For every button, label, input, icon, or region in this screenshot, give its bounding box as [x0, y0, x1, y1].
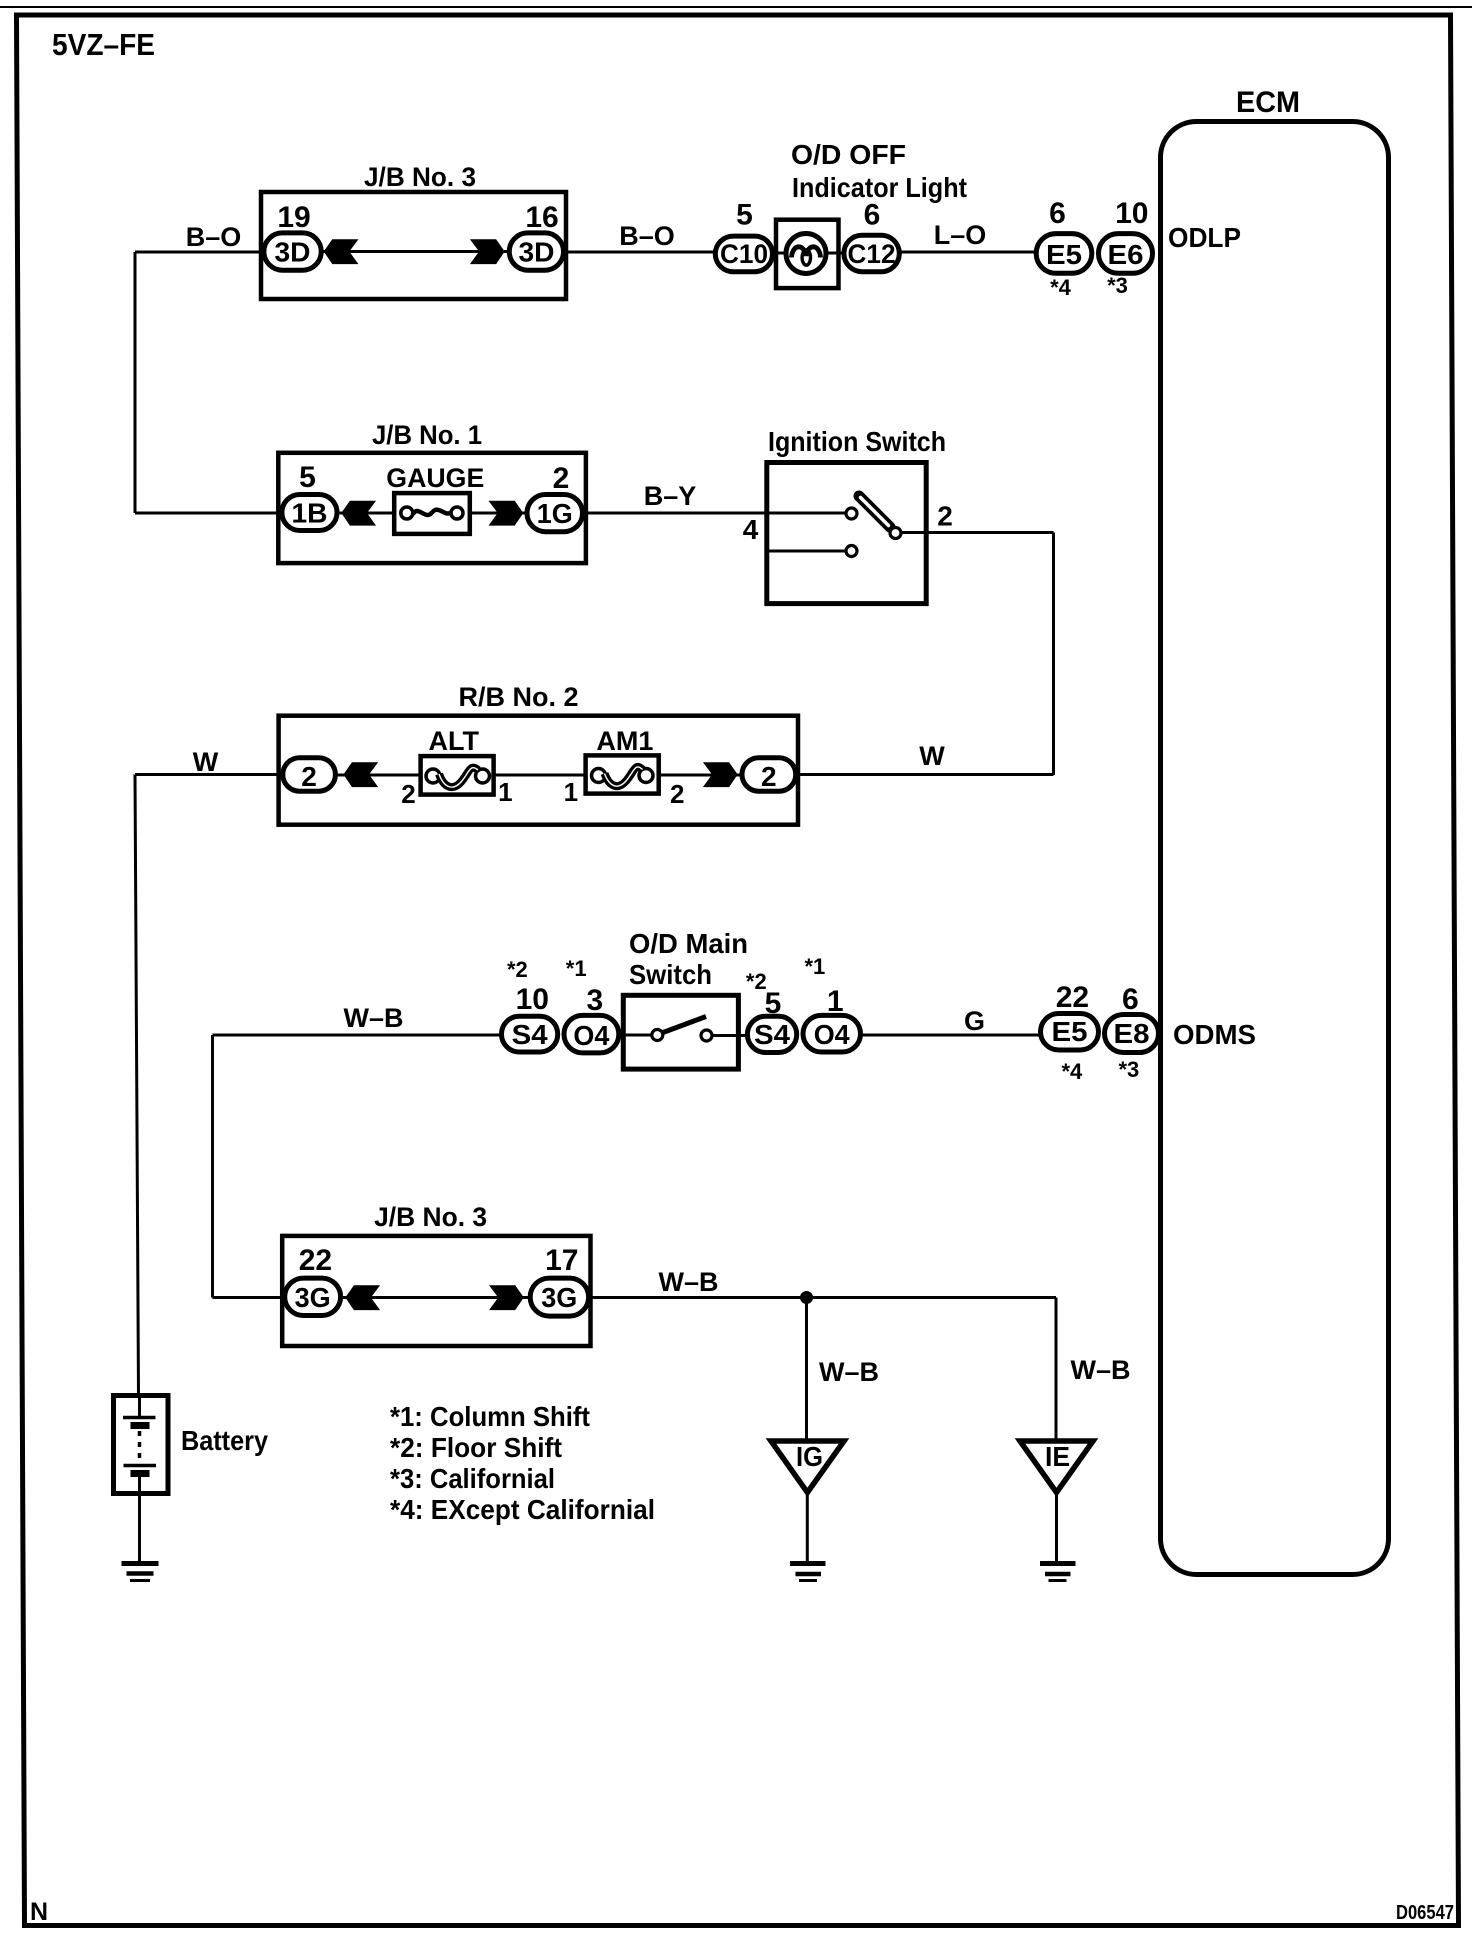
connector C10 oval: [715, 236, 772, 272]
wire inside J/B No.3: [322, 250, 508, 253]
wire W left row3: [135, 773, 284, 776]
svg-text:3D: 3D: [519, 237, 555, 268]
svg-text:D06547: D06547: [1396, 1902, 1454, 1924]
svg-text:*4: *4: [1050, 275, 1072, 300]
svg-text:G: G: [964, 1006, 985, 1036]
svg-text:O/D OFF: O/D OFF: [791, 139, 906, 170]
wire inside J/B No.3 bottom: [343, 1296, 528, 1299]
svg-text:22: 22: [299, 1244, 332, 1277]
svg-text:W–B: W–B: [819, 1357, 879, 1387]
svg-text:ECM: ECM: [1236, 86, 1300, 119]
wire IE to ground: [1055, 1495, 1058, 1563]
wire from ignition pin2: [902, 531, 1054, 534]
svg-text:*1: *1: [805, 954, 826, 979]
svg-text:*2: *2: [746, 969, 767, 994]
wire B-O row1 left: [135, 251, 263, 254]
wire W-B row5: [589, 1296, 1056, 1299]
svg-text:GAUGE: GAUGE: [386, 463, 484, 493]
battery dashed middle: [138, 1431, 142, 1462]
svg-text:6: 6: [864, 199, 881, 232]
fuse AM1 box: [586, 755, 659, 793]
O/D switch contact circle right: [701, 1030, 712, 1041]
svg-text:Ignition Switch: Ignition Switch: [768, 426, 946, 457]
ignition switch lever: [859, 496, 890, 527]
svg-text:*4: *4: [1062, 1059, 1084, 1084]
battery plate short thick bottom: [131, 1470, 150, 1477]
ground symbol IE: [1040, 1561, 1076, 1566]
svg-text:J/B No. 3: J/B No. 3: [364, 162, 476, 192]
J/B No. 1 box: [278, 453, 586, 563]
svg-text:*3: *3: [1119, 1057, 1140, 1082]
svg-text:5: 5: [765, 987, 782, 1020]
svg-text:1G: 1G: [537, 498, 573, 529]
connector 3G pin22 oval: [285, 1278, 341, 1315]
connector 1G pin2 oval: [527, 495, 583, 532]
arrow left (J/B No.3): [324, 239, 359, 264]
junction dot: [800, 1291, 813, 1304]
wire vertical row4 to row5: [211, 1035, 214, 1298]
wire W-B row4: [213, 1034, 503, 1037]
svg-text:2: 2: [401, 779, 415, 809]
arrow right (J/B No.3 bottom): [489, 1285, 524, 1310]
J/B No. 3 box (top): [261, 192, 566, 299]
lamp circle: [786, 234, 826, 274]
svg-text:J/B No. 1: J/B No. 1: [372, 420, 482, 450]
svg-text:3: 3: [586, 984, 603, 1017]
svg-text:E5: E5: [1052, 1016, 1088, 1047]
fuse ALT box: [421, 756, 494, 795]
fuse GAUGE element: [401, 507, 413, 519]
ignition second contact row: [767, 550, 845, 553]
connector 3D pin19 oval: [264, 233, 321, 270]
ground triangle IE: [1020, 1441, 1093, 1493]
svg-text:2: 2: [301, 761, 317, 792]
ignition contact circle pin4: [846, 508, 857, 519]
svg-text:E8: E8: [1114, 1018, 1150, 1049]
ground symbol battery: [122, 1561, 159, 1566]
svg-text:*3: Californial: *3: Californial: [390, 1463, 555, 1494]
svg-text:2: 2: [937, 501, 953, 532]
svg-text:O4: O4: [573, 1020, 609, 1051]
svg-text:5: 5: [736, 199, 753, 232]
R/B No. 2 box: [279, 716, 798, 825]
ground triangle IG: [771, 1441, 844, 1493]
svg-text:1: 1: [498, 777, 512, 807]
J/B No. 3 box (bottom): [282, 1236, 590, 1346]
lamp wire stubs: [772, 252, 790, 255]
svg-text:ALT: ALT: [429, 726, 480, 756]
ECM box U1: [1161, 122, 1389, 1575]
svg-text:*4: EXcept Californial: *4: EXcept Californial: [390, 1494, 655, 1525]
wire down to IG: [805, 1298, 808, 1442]
svg-text:J/B No. 3: J/B No. 3: [374, 1202, 487, 1232]
svg-text:S4: S4: [754, 1019, 790, 1050]
svg-text:22: 22: [1056, 981, 1089, 1014]
connector 2 oval right (R/B No.2): [742, 758, 796, 792]
svg-text:6: 6: [1049, 197, 1066, 230]
arrow right (R/B No.2): [703, 762, 738, 787]
svg-text:N: N: [30, 1898, 48, 1926]
O/D switch contact circle left: [652, 1030, 663, 1041]
svg-text:1: 1: [827, 985, 844, 1018]
svg-text:3G: 3G: [541, 1282, 577, 1313]
wire B-Y: [582, 512, 845, 515]
svg-text:B–Y: B–Y: [644, 481, 697, 511]
wire L-O: [899, 251, 1037, 254]
svg-text:W: W: [193, 747, 219, 777]
svg-text:O4: O4: [814, 1019, 850, 1050]
svg-text:C12: C12: [848, 239, 896, 269]
svg-text:19: 19: [277, 201, 310, 234]
wire W right row3: [796, 773, 1054, 776]
svg-text:10: 10: [1115, 197, 1148, 230]
wire inside J/B No.1: [340, 512, 395, 515]
arrow left (R/B No.2): [343, 762, 378, 787]
connector O4 pin1 oval: [803, 1015, 861, 1052]
wire left vertical row3 to battery: [135, 775, 139, 1396]
fuse GAUGE box: [394, 493, 470, 534]
Ignition Switch box: [767, 463, 926, 604]
battery plate long top: [123, 1416, 156, 1420]
svg-text:5: 5: [299, 461, 316, 494]
svg-text:*1: Column Shift: *1: Column Shift: [390, 1401, 590, 1432]
battery plate short thick top: [131, 1422, 150, 1429]
arrow right (J/B No.1): [489, 501, 524, 526]
svg-text:*2: Floor Shift: *2: Floor Shift: [390, 1432, 562, 1463]
connector 3G pin17 oval: [530, 1278, 588, 1316]
svg-text:*3: *3: [1107, 273, 1128, 298]
svg-text:B–O: B–O: [186, 222, 242, 252]
svg-text:ODLP: ODLP: [1168, 222, 1241, 253]
connector E5 pin22 oval: [1041, 1014, 1099, 1051]
battery to ground wire: [138, 1477, 141, 1562]
svg-text:C10: C10: [720, 239, 768, 269]
svg-text:W: W: [919, 741, 945, 771]
svg-text:1B: 1B: [292, 498, 328, 529]
ignition common contact circle pin2: [890, 528, 901, 539]
svg-text:5VZ–FE: 5VZ–FE: [52, 27, 155, 62]
svg-text:*1: *1: [566, 956, 587, 981]
battery internal top wire: [138, 1398, 141, 1417]
arrow left (J/B No.1): [341, 501, 376, 526]
svg-text:O/D Main: O/D Main: [629, 928, 748, 959]
svg-text:2: 2: [670, 779, 684, 809]
svg-text:17: 17: [545, 1244, 578, 1277]
fuse ALT element: [426, 769, 440, 783]
scan edge line top: [0, 6, 1472, 8]
battery plate long bottom: [124, 1464, 157, 1468]
svg-text:2: 2: [761, 761, 777, 792]
wire IG to ground: [806, 1495, 809, 1563]
wire down to IE: [1055, 1298, 1058, 1442]
wire inside O/D main switch: [621, 1034, 651, 1037]
connector 2 oval left (R/B No.2): [283, 758, 336, 792]
svg-text:L–O: L–O: [934, 220, 987, 250]
wire into 3G: [213, 1296, 287, 1299]
lamp filament: [792, 247, 821, 258]
svg-text:4: 4: [743, 514, 759, 545]
connector 1B pin5 oval: [282, 495, 337, 531]
svg-text:W–B: W–B: [344, 1003, 404, 1033]
O/D switch lever: [663, 1017, 706, 1033]
svg-text:16: 16: [525, 201, 558, 234]
svg-text:3D: 3D: [275, 237, 311, 268]
connector E6 pin10 oval: [1099, 234, 1153, 274]
svg-text:10: 10: [516, 983, 549, 1016]
svg-text:IG: IG: [796, 1441, 823, 1472]
arrow right (J/B No.3): [470, 239, 505, 264]
svg-text:6: 6: [1122, 983, 1139, 1016]
connector E5 pin6 oval: [1036, 234, 1092, 274]
connector 3D pin16 oval: [509, 233, 563, 270]
ground symbol IG: [790, 1561, 826, 1566]
svg-text:W–B: W–B: [1071, 1355, 1131, 1385]
wire into 1B: [135, 512, 282, 515]
connector S4 pin5 oval: [747, 1016, 796, 1052]
svg-text:R/B No. 2: R/B No. 2: [459, 682, 579, 712]
connector S4 pin10 oval: [502, 1016, 558, 1052]
svg-text:2: 2: [553, 462, 570, 495]
svg-text:E6: E6: [1108, 239, 1144, 270]
arrow left (J/B No.3 bottom): [345, 1285, 380, 1310]
wire G: [860, 1034, 1040, 1037]
svg-text:Battery: Battery: [181, 1425, 268, 1456]
svg-text:1: 1: [564, 777, 578, 807]
connector E8 pin6 oval: [1105, 1015, 1159, 1053]
svg-text:Switch: Switch: [629, 959, 712, 990]
svg-text:B–O: B–O: [619, 221, 675, 251]
battery B1 box: [114, 1396, 169, 1494]
indicator light box: [776, 220, 839, 288]
svg-text:IE: IE: [1045, 1441, 1070, 1472]
svg-text:ODMS: ODMS: [1173, 1019, 1256, 1050]
connector O4 pin3 oval: [564, 1015, 619, 1053]
svg-text:S4: S4: [512, 1019, 548, 1050]
fuse AM1 element: [592, 769, 606, 783]
svg-text:3G: 3G: [295, 1282, 331, 1313]
svg-text:W–B: W–B: [659, 1267, 719, 1297]
wire inside R/B No.2: [335, 774, 587, 777]
svg-text:AM1: AM1: [596, 726, 653, 756]
O/D Main Switch box: [623, 995, 738, 1069]
wire left vertical row1 to row2: [134, 252, 137, 513]
wire B-O row1 middle: [566, 251, 715, 254]
connector C12 oval: [844, 235, 899, 272]
svg-text:*2: *2: [507, 957, 528, 982]
svg-text:E5: E5: [1046, 239, 1082, 270]
